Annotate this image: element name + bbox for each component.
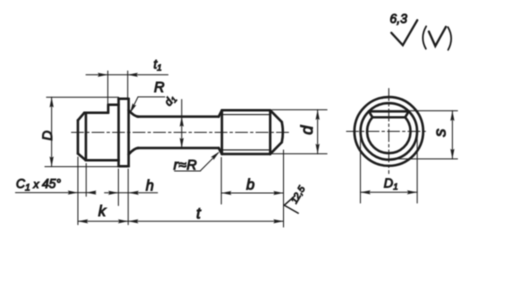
thread runout bottom (219, 148, 222, 154)
svg-text:12,5: 12,5 (289, 184, 308, 206)
end view inner circle arc (face circle) (367, 117, 410, 153)
fillet R bottom (129, 148, 139, 154)
flat right bevel (405, 111, 409, 117)
svg-text:6,3: 6,3 (390, 12, 407, 26)
thread major top (222, 109, 270, 112)
dimension k (78, 220, 128, 222)
svg-text:k: k (98, 203, 107, 220)
end view vertical centerline (388, 89, 390, 174)
svg-text:t: t (196, 205, 201, 222)
dimension t1 (86, 71, 168, 113)
svg-text:D1: D1 (384, 176, 398, 192)
dimension C1x45 (16, 164, 96, 197)
flat left bevel (369, 111, 373, 117)
svg-text:D: D (39, 130, 55, 140)
collar left face (117, 99, 120, 166)
head cylinder top edge (108, 104, 118, 107)
thread runout top (219, 110, 222, 116)
small checkmark (429, 27, 446, 46)
shaft bottom edge (138, 147, 219, 150)
label R with leader (131, 97, 165, 111)
svg-text:s: s (431, 129, 449, 137)
end view outer circle (collar D) (354, 97, 423, 166)
dimension s (390, 111, 458, 159)
shaft top edge (138, 115, 219, 118)
head chamfer boundary line (85, 113, 88, 160)
thread minor diameter lines (222, 115, 269, 150)
screw head outline (78, 99, 283, 166)
dimension b (221, 150, 283, 227)
extension line head face / k left (77, 157, 79, 225)
svg-text:C1 x 45°: C1 x 45° (16, 177, 61, 194)
svg-text:r≈R: r≈R (174, 156, 198, 172)
dimension d (272, 110, 327, 154)
dimension t (128, 220, 283, 222)
thread major bottom (222, 153, 270, 156)
collar bottom edge (119, 165, 129, 168)
flat end step (107, 105, 110, 113)
extension line collar left / h left (117, 169, 119, 206)
label r~R with leader (175, 153, 219, 171)
dimension D (45, 97, 120, 166)
collar right face (127, 99, 130, 166)
fillet R top (129, 110, 139, 116)
thread chamfer line (269, 110, 272, 154)
end view middle circle (head D1) (361, 103, 418, 160)
svg-text:b: b (246, 176, 254, 193)
head top chamfer (78, 113, 84, 121)
end chamfer top (270, 110, 282, 122)
thread start line (221, 110, 224, 154)
extension line collar right / h,k,t (127, 169, 129, 225)
flat upper chord (369, 110, 409, 112)
end view horizontal centerline (347, 130, 426, 132)
svg-text:d1: d1 (163, 93, 179, 109)
end face (282, 122, 283, 142)
head bottom chamfer (78, 154, 86, 161)
svg-text:h: h (146, 178, 154, 194)
head left face (77, 120, 80, 153)
roughness mark 12,5 (284, 196, 298, 213)
dimension h (105, 192, 158, 194)
flat lower chord (372, 116, 405, 118)
head bottom edge (86, 159, 119, 162)
parenthesis close (448, 27, 451, 50)
head flat top edge (84, 112, 108, 115)
side view centerline (72, 131, 289, 133)
collar top edge (119, 98, 129, 101)
svg-text:R: R (154, 80, 165, 96)
svg-text:t1: t1 (154, 58, 162, 73)
dimension D1 (360, 133, 417, 203)
end chamfer bottom (270, 142, 282, 154)
dimension d1 (181, 100, 183, 149)
svg-text:d: d (298, 125, 316, 135)
big checkmark (391, 20, 417, 45)
parenthesis open (423, 26, 426, 49)
